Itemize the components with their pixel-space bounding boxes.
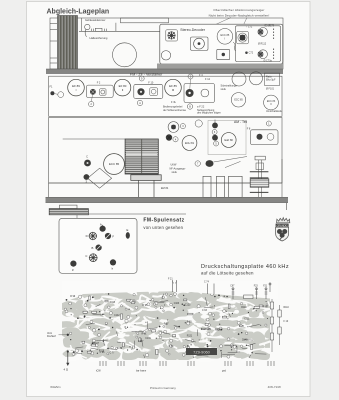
svg-text:4/W-71/W: 4/W-71/W (268, 385, 281, 389)
svg-text:EaF 63: EaF 63 (201, 327, 211, 331)
svg-text:C140: C140 (242, 340, 248, 342)
svg-text:C 74: C 74 (204, 282, 210, 284)
svg-text:EaF 80: EaF 80 (225, 138, 234, 142)
svg-text:Ø R112: Ø R112 (258, 43, 267, 46)
svg-text:↑ C71: ↑ C71 (246, 25, 253, 28)
svg-text:⚫ C72: ⚫ C72 (245, 51, 254, 55)
svg-text:von unten gesehen: von unten gesehen (143, 225, 183, 230)
svg-text:R121: R121 (187, 335, 193, 337)
svg-text:stufe: stufe (172, 171, 178, 174)
svg-text:7Z9-9060: 7Z9-9060 (193, 349, 210, 354)
svg-text:der Schienenbremse: der Schienenbremse (163, 109, 187, 112)
svg-text:bar frame: bar frame (136, 370, 147, 373)
svg-text:R 87: R 87 (164, 324, 170, 326)
svg-text:C 77: C 77 (110, 353, 116, 355)
svg-text:C: C (86, 155, 88, 159)
svg-text:GRUNDIG: GRUNDIG (277, 223, 288, 227)
svg-text:FM-Spulensatz: FM-Spulensatz (143, 217, 184, 223)
svg-text:F 12: F 12 (205, 78, 211, 81)
svg-text:R 91: R 91 (142, 334, 148, 336)
svg-text:F 3L: F 3L (171, 101, 177, 104)
svg-text:Stereo-Decoder: Stereo-Decoder (180, 28, 206, 32)
svg-text:F 10: F 10 (284, 321, 289, 323)
svg-text:C103: C103 (174, 303, 180, 305)
svg-text:C 89: C 89 (117, 348, 123, 350)
svg-text:R 83: R 83 (187, 321, 193, 323)
svg-text:Druckschaltungsplatte 460 kHz: Druckschaltungsplatte 460 kHz (201, 264, 289, 270)
svg-text:Elko 5µF: Elko 5µF (266, 79, 276, 82)
svg-text:4 Ω: 4 Ω (64, 368, 68, 372)
svg-text:W3a5/m: W3a5/m (50, 385, 61, 389)
svg-text:R110: R110 (241, 307, 247, 309)
svg-text:R116: R116 (99, 351, 105, 353)
svg-text:Ø F101: Ø F101 (266, 88, 275, 91)
svg-text:F: F (112, 234, 114, 238)
svg-text:R107: R107 (94, 343, 100, 345)
svg-text:R 78: R 78 (239, 326, 245, 328)
svg-text:FM - ZF - Verstärker: FM - ZF - Verstärker (130, 73, 163, 77)
svg-text:C111: C111 (244, 319, 250, 321)
svg-text:C67: C67 (230, 285, 235, 287)
svg-text:F 10: F 10 (148, 81, 154, 84)
svg-text:Abgleich-Lageplan: Abgleich-Lageplan (47, 8, 110, 15)
svg-text:C107: C107 (138, 341, 144, 343)
svg-text:R110: R110 (284, 307, 290, 309)
svg-text:C125: C125 (185, 304, 191, 306)
svg-text:des Möglichen bügen: des Möglichen bügen (197, 112, 221, 115)
svg-text:C131: C131 (145, 338, 151, 340)
svg-text:C142: C142 (114, 315, 120, 317)
svg-text:ECC 85: ECC 85 (221, 34, 230, 37)
svg-text:R 95: R 95 (142, 305, 148, 307)
svg-text:Haltesicherung: Haltesicherung (90, 36, 108, 40)
svg-text:Nicht beim Decoder-Nachgleich: Nicht beim Decoder-Nachgleich verstellen… (209, 14, 270, 18)
svg-text:ECH 81: ECH 81 (185, 141, 195, 145)
svg-text:C: C (85, 254, 87, 258)
svg-text:E: E (126, 228, 128, 232)
svg-text:Drehkof: Drehkof (47, 335, 56, 338)
svg-text:Gehäuseklammer: Gehäuseklammer (85, 18, 106, 22)
svg-text:Printed in Germany: Printed in Germany (150, 386, 176, 390)
svg-text:C 84: C 84 (169, 346, 175, 348)
svg-text:UKW: UKW (171, 164, 177, 167)
svg-text:auf die Lötseite gesehen: auf die Lötseite gesehen (201, 271, 254, 276)
svg-text:Oberirdischer Abstimmungszeige: Oberirdischer Abstimmungszeiger (213, 8, 264, 12)
svg-text:II: II (122, 88, 124, 92)
svg-text:R 88: R 88 (263, 306, 269, 308)
svg-text:R 99: R 99 (70, 296, 76, 298)
svg-text:ECC 85: ECC 85 (109, 162, 120, 166)
svg-text:Ø C73a: Ø C73a (264, 59, 273, 62)
svg-text:C 93: C 93 (202, 310, 208, 312)
svg-text:S2 Ø173: S2 Ø173 (265, 25, 275, 28)
svg-text:F 21: F 21 (168, 279, 173, 281)
svg-text:F 4: F 4 (199, 74, 203, 77)
svg-text:Umschaltstufe: Umschaltstufe (266, 110, 282, 113)
svg-text:ECC 85: ECC 85 (234, 99, 243, 102)
svg-text:B: B (91, 246, 93, 250)
svg-text:gnd: gnd (222, 370, 227, 373)
svg-text:F 2: F 2 (97, 82, 101, 85)
svg-text:C118: C118 (110, 302, 116, 304)
svg-text:F 8: F 8 (247, 127, 251, 130)
svg-text:EM 84: EM 84 (161, 187, 169, 190)
svg-text:III: III (172, 88, 175, 92)
svg-text:stufe: stufe (221, 88, 227, 91)
svg-text:tCW: tCW (96, 370, 101, 373)
svg-text:R102: R102 (216, 329, 222, 331)
svg-text:D: D (86, 234, 88, 238)
